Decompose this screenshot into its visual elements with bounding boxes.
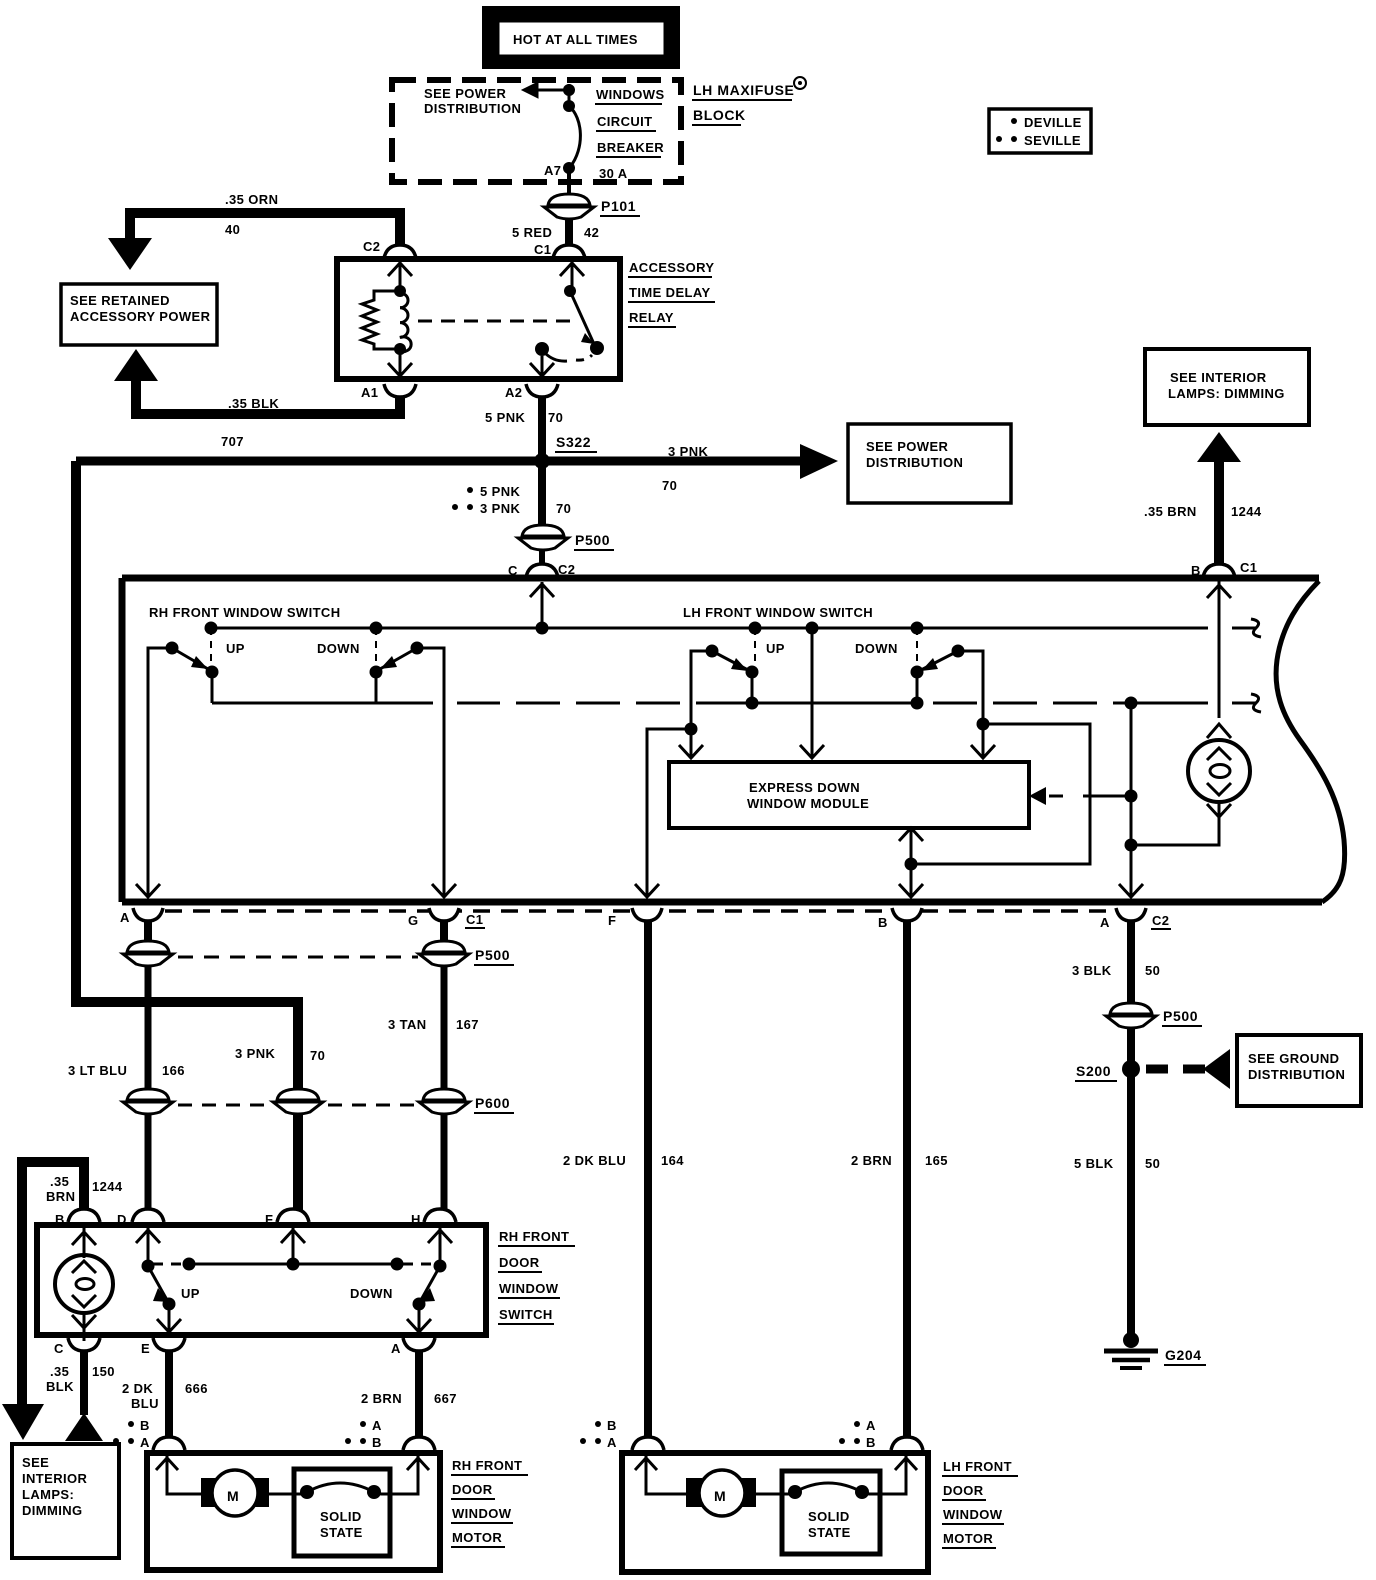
connector P500 on G line	[419, 941, 514, 966]
reference box SEE GROUND DISTRIBUTION	[1237, 1035, 1361, 1106]
svg-text:DOWN: DOWN	[855, 641, 898, 656]
svg-text:RH FRONT WINDOW SWITCH: RH FRONT WINDOW SWITCH	[149, 605, 341, 620]
wire 3 TAN 167	[388, 966, 479, 1092]
svg-text:G: G	[408, 913, 419, 928]
RH switch DOWN dashed guide	[375, 628, 377, 674]
svg-text:DEVILLE: DEVILLE	[1024, 115, 1082, 130]
svg-text:MOTOR: MOTOR	[943, 1531, 993, 1546]
motor M1: RH front door window motor box	[147, 1453, 440, 1570]
svg-text:1244: 1244	[1231, 504, 1262, 519]
svg-text:SEE GROUND: SEE GROUND	[1248, 1051, 1339, 1066]
label WINDOWS CIRCUIT BREAKER 30 A	[595, 87, 665, 181]
svg-text:40: 40	[225, 222, 240, 237]
arrow to see power distribution	[522, 82, 569, 98]
pin F cup	[265, 1209, 309, 1227]
wire H drop (TAN)	[441, 1114, 448, 1210]
node bus x211	[205, 622, 218, 635]
circuit breaker (windows, 30A)	[563, 100, 580, 174]
wire D line with up arrow	[136, 1228, 160, 1266]
svg-text:DOOR: DOOR	[943, 1483, 984, 1498]
arrow into interior lamps (big)	[2, 1404, 44, 1440]
svg-text:INTERIOR: INTERIOR	[22, 1471, 88, 1486]
wire linkage (door switch)	[153, 1263, 437, 1266]
svg-text:5 RED: 5 RED	[512, 225, 552, 240]
svg-text:2 DK BLU: 2 DK BLU	[563, 1153, 626, 1168]
svg-text:.35 BRN: .35 BRN	[1144, 504, 1197, 519]
connector P600 on TAN line	[419, 1089, 514, 1114]
wire centre bus to module	[800, 628, 824, 758]
wire LH motor right entry	[862, 1456, 917, 1494]
svg-text:BLK: BLK	[46, 1379, 74, 1394]
arrow down at pin A	[136, 884, 160, 897]
arrow to see ground distribution	[1203, 1049, 1230, 1089]
reference box SEE INTERIOR LAMPS: DIMMING (bottom left)	[12, 1444, 119, 1558]
svg-text:42: 42	[584, 225, 599, 240]
svg-text:ACCESSORY POWER: ACCESSORY POWER	[70, 309, 211, 324]
svg-text:70: 70	[548, 410, 563, 425]
reference box SEE INTERIOR LAMPS: DIMMING (top right)	[1145, 349, 1309, 425]
svg-text:SEE POWER: SEE POWER	[866, 439, 949, 454]
svg-text:A1: A1	[361, 385, 378, 400]
label LH FRONT DOOR WINDOW MOTOR	[942, 1459, 1018, 1548]
LH maxifuse block (dashed outline)	[392, 80, 681, 182]
pin cup RH motor right	[403, 1437, 435, 1450]
svg-text:2 BRN: 2 BRN	[361, 1391, 402, 1406]
wire 2 DK BLU 666	[113, 1351, 208, 1450]
wire dashed thick to ground distribution	[1146, 1065, 1205, 1074]
svg-text:A: A	[120, 910, 130, 925]
svg-text:50: 50	[1145, 1156, 1160, 1171]
pin B cup on panel top right	[1191, 560, 1259, 578]
switch RH door DOWN arm	[407, 1260, 447, 1333]
svg-text:A: A	[140, 1435, 150, 1450]
svg-text:B: B	[55, 1212, 65, 1227]
svg-text:B: B	[140, 1418, 150, 1433]
svg-text:A2: A2	[505, 385, 522, 400]
pin A cup below panel	[120, 908, 163, 925]
pin G cup below panel with C1	[408, 908, 485, 928]
svg-text:UP: UP	[181, 1286, 200, 1301]
svg-text:DOOR: DOOR	[499, 1255, 540, 1270]
wire top bus	[211, 627, 1256, 630]
svg-text:150: 150	[92, 1364, 115, 1379]
svg-text:.35: .35	[50, 1174, 69, 1189]
continuation hook top bus	[1251, 619, 1261, 637]
pin A cup below panel right with C2	[1100, 908, 1171, 930]
node linkage mid	[287, 1258, 300, 1271]
svg-text:3 PNK: 3 PNK	[668, 444, 709, 459]
switch S: RH front door window switch box	[37, 1225, 486, 1335]
svg-text:1244: 1244	[92, 1179, 123, 1194]
svg-text:2 DK: 2 DK	[122, 1381, 153, 1396]
svg-text:A: A	[607, 1435, 617, 1450]
svg-text:H: H	[411, 1212, 421, 1227]
svg-text:STATE: STATE	[320, 1525, 363, 1540]
wire A1 exit with down arrow	[388, 349, 412, 376]
svg-text:C: C	[54, 1341, 64, 1356]
svg-text:DIMMING: DIMMING	[22, 1503, 83, 1518]
svg-text:DISTRIBUTION: DISTRIBUTION	[866, 455, 963, 470]
svg-text:A: A	[1100, 915, 1110, 930]
svg-text:G204: G204	[1165, 1347, 1202, 1363]
wire 5 RED 42	[512, 219, 599, 245]
svg-text:A: A	[866, 1418, 876, 1433]
wire panel feed entry (C) with up arrow	[530, 582, 554, 628]
svg-text:3 PNK: 3 PNK	[235, 1046, 276, 1061]
svg-text:C2: C2	[1152, 913, 1169, 928]
pin markers LH motor right	[839, 1418, 876, 1450]
wire 3 LT BLU 166	[68, 966, 185, 1092]
svg-text:P500: P500	[1163, 1008, 1198, 1024]
wire dashed into module right side	[1029, 787, 1131, 805]
wire 5 BLK 50	[1074, 1069, 1160, 1340]
svg-text:LH MAXIFUSE: LH MAXIFUSE	[693, 82, 795, 98]
svg-text:5 BLK: 5 BLK	[1074, 1156, 1114, 1171]
reference box SEE RETAINED ACCESSORY POWER	[61, 284, 217, 345]
svg-text:S322: S322	[556, 434, 591, 450]
switch RH door UP arm	[142, 1260, 182, 1333]
svg-text:WINDOW: WINDOW	[943, 1507, 1003, 1522]
wire C2 entry with up arrow	[388, 262, 412, 290]
continuation hook linkage	[1251, 694, 1261, 712]
splice S200	[1075, 1060, 1140, 1081]
pin E cup	[141, 1338, 185, 1356]
svg-text:TIME DELAY: TIME DELAY	[629, 285, 711, 300]
wire 3 PNK 70 to power distribution arrow	[542, 444, 838, 493]
wire 2 BRN 667	[345, 1351, 457, 1450]
power feed box HOT AT ALL TIMES	[482, 6, 680, 69]
svg-text:F: F	[265, 1212, 273, 1227]
node bus x542	[536, 622, 549, 635]
svg-text:LH FRONT: LH FRONT	[943, 1459, 1012, 1474]
svg-text:C1: C1	[1240, 560, 1257, 575]
wire F line with up arrow to linkage	[281, 1228, 305, 1264]
svg-text:70: 70	[310, 1048, 325, 1063]
svg-text:ACCESSORY: ACCESSORY	[629, 260, 714, 275]
wire thick from left joining S322	[76, 457, 542, 466]
svg-text:A: A	[391, 1341, 401, 1356]
wire into panel pin C	[539, 550, 545, 564]
wire B C1 exit top	[1218, 578, 1221, 582]
reference box SEE POWER DISTRIBUTION	[848, 424, 1011, 503]
wire .35 ORN 40 (thick)	[108, 192, 400, 270]
svg-text:D: D	[117, 1212, 127, 1227]
svg-text:S200: S200	[1076, 1063, 1111, 1079]
svg-text:666: 666	[185, 1381, 208, 1396]
svg-text:707: 707	[221, 434, 244, 449]
svg-text:LAMPS: DIMMING: LAMPS: DIMMING	[1168, 386, 1285, 401]
svg-text:C2: C2	[363, 239, 380, 254]
label RH FRONT DOOR WINDOW SWITCH	[498, 1229, 575, 1324]
svg-text:SEE RETAINED: SEE RETAINED	[70, 293, 170, 308]
splice S322	[534, 434, 597, 469]
wire C1 entry with up arrow	[560, 262, 584, 290]
wire pin A (C2) vertical	[1119, 697, 1143, 898]
pin A cup	[391, 1338, 435, 1356]
svg-text:HOT AT ALL TIMES: HOT AT ALL TIMES	[513, 32, 638, 47]
svg-text:DOWN: DOWN	[317, 641, 360, 656]
node at breaker top	[563, 84, 575, 96]
window switch panel outline with torn right edge	[122, 578, 1345, 902]
LH switch UP arm	[706, 645, 759, 710]
RH switch UP arm	[166, 642, 219, 704]
svg-text:RH FRONT: RH FRONT	[452, 1458, 522, 1473]
pin B cup (door switch top)	[55, 1209, 100, 1227]
svg-text:B: B	[878, 915, 888, 930]
svg-text:E: E	[141, 1341, 150, 1356]
svg-text:SEE: SEE	[22, 1455, 49, 1470]
svg-text:LAMPS:: LAMPS:	[22, 1487, 74, 1502]
pin B cup below panel	[878, 908, 922, 930]
svg-text:164: 164	[661, 1153, 684, 1168]
svg-text:BLU: BLU	[131, 1396, 159, 1411]
svg-text:F: F	[608, 913, 616, 928]
pin C1 into relay (cup)	[534, 242, 585, 258]
svg-text:WINDOW: WINDOW	[499, 1281, 559, 1296]
svg-text:UP: UP	[226, 641, 245, 656]
svg-text:UP: UP	[766, 641, 785, 656]
svg-text:667: 667	[434, 1391, 457, 1406]
wire LH up pivot to pin F and module	[635, 651, 712, 897]
svg-text:50: 50	[1145, 963, 1160, 978]
svg-text:P101: P101	[601, 198, 636, 214]
svg-text:MOTOR: MOTOR	[452, 1530, 502, 1545]
svg-text:.35 ORN: .35 ORN	[225, 192, 278, 207]
pin A2 cup below relay	[505, 384, 558, 400]
wire A7 to P101	[567, 168, 571, 196]
node linkage right	[391, 1258, 404, 1271]
wire G line to P500	[440, 921, 448, 945]
svg-text:SOLID: SOLID	[320, 1509, 362, 1524]
wire to S200	[1127, 1028, 1135, 1100]
svg-text:B: B	[372, 1435, 382, 1450]
lamp L2: door switch illumination	[55, 1228, 113, 1341]
svg-text:C1: C1	[466, 912, 483, 927]
wire A line to P500	[144, 921, 152, 945]
lamp L1: panel illumination	[1131, 582, 1250, 845]
node bus x376	[370, 622, 383, 635]
wire motor to solid state LH	[754, 1493, 795, 1496]
motor M2: LH front door window motor box	[622, 1453, 928, 1572]
label RH FRONT DOOR WINDOW MOTOR	[451, 1458, 528, 1547]
svg-text:3 BLK: 3 BLK	[1072, 963, 1112, 978]
svg-text:5 PNK: 5 PNK	[480, 484, 521, 499]
RH switch UP dashed guide	[210, 628, 212, 674]
svg-text:SWITCH: SWITCH	[499, 1307, 553, 1322]
wire motor to solid state RH	[267, 1493, 307, 1496]
svg-text:BRN: BRN	[46, 1189, 75, 1204]
pin A1 cup below relay	[361, 384, 416, 400]
LH switch UP dashed guide	[754, 628, 756, 674]
wire 2 BRN 165 (B to LH motor)	[851, 921, 948, 1437]
svg-text:C1: C1	[534, 242, 551, 257]
svg-text:DOWN: DOWN	[350, 1286, 393, 1301]
motor symbol RH (M)	[201, 1470, 269, 1516]
svg-text:P500: P500	[475, 947, 510, 963]
connector P600 on PNK line	[273, 1089, 323, 1114]
svg-text:.35 BLK: .35 BLK	[228, 396, 279, 411]
wire D drop (LT BLU)	[145, 1114, 152, 1210]
node linkage left	[183, 1258, 196, 1271]
connector P500 (ground lead)	[1106, 1003, 1202, 1028]
module U2: express down window module	[669, 762, 1029, 828]
svg-text:B: B	[866, 1435, 876, 1450]
wire dashed between P500s	[178, 956, 418, 959]
svg-text:3 TAN: 3 TAN	[388, 1017, 427, 1032]
pin D cup	[117, 1209, 164, 1227]
node bus x812	[806, 622, 819, 635]
svg-text:BREAKER: BREAKER	[597, 140, 664, 155]
solid state module RH	[294, 1469, 390, 1556]
svg-text:EXPRESS DOWN: EXPRESS DOWN	[749, 780, 860, 795]
pin cup RH motor left	[153, 1437, 185, 1450]
wire .35 BRN 1244 up to interior lamps	[1144, 432, 1262, 563]
motor symbol LH (M)	[686, 1470, 756, 1516]
svg-text:RH FRONT: RH FRONT	[499, 1229, 569, 1244]
wire 5 PNK / 3 PNK 70 below S322	[452, 461, 571, 526]
wire A2 exit with down arrow	[530, 356, 554, 376]
pin C2 cup above relay	[363, 239, 416, 258]
pin C cup (door switch bottom)	[54, 1338, 100, 1356]
svg-text:P600: P600	[475, 1095, 510, 1111]
svg-text:M: M	[227, 1488, 239, 1504]
wire connector-face dashed line below panel	[165, 909, 1108, 913]
wire RH motor right entry	[374, 1456, 429, 1494]
wire RH pivot to pin A	[148, 648, 172, 897]
label LH MAXIFUSE BLOCK	[692, 77, 806, 125]
svg-text:3 LT BLU: 3 LT BLU	[68, 1063, 127, 1078]
connector P500 on A line	[123, 941, 173, 966]
svg-text:166: 166	[162, 1063, 185, 1078]
svg-text:165: 165	[925, 1153, 948, 1168]
wire breaker top stub	[568, 84, 571, 105]
svg-text:30 A: 30 A	[599, 166, 628, 181]
LH switch DOWN arm	[911, 645, 965, 710]
connector P500 (main feed)	[518, 525, 614, 550]
svg-text:5 PNK: 5 PNK	[485, 410, 526, 425]
ground G204	[1104, 1332, 1206, 1368]
svg-text:A7: A7	[544, 163, 561, 178]
svg-text:SOLID: SOLID	[808, 1509, 850, 1524]
svg-text:RELAY: RELAY	[629, 310, 674, 325]
wire H line with up arrow	[428, 1228, 452, 1266]
RH switch DOWN arm	[370, 642, 424, 704]
svg-text:LH FRONT WINDOW SWITCH: LH FRONT WINDOW SWITCH	[683, 605, 873, 620]
svg-text:B: B	[607, 1418, 617, 1433]
relay switch contact	[535, 285, 604, 361]
svg-text:WINDOW: WINDOW	[452, 1506, 512, 1521]
wire LH down pivot to module and loop	[899, 651, 1090, 897]
wire LH motor left entry	[635, 1456, 688, 1494]
wire .35 BLK 150 with off arrow	[46, 1351, 115, 1441]
wire RH down pivot to pin G	[417, 648, 444, 897]
pin F cup below panel	[608, 908, 662, 928]
pin C cup on panel top	[508, 562, 577, 578]
arrow down at pin G	[432, 884, 456, 897]
relay internal dashed link	[418, 320, 575, 323]
node bus x917	[911, 622, 924, 635]
svg-text:A: A	[372, 1418, 382, 1433]
connector P101	[544, 194, 640, 219]
svg-text:SEVILLE: SEVILLE	[1024, 133, 1081, 148]
LH switch DOWN dashed guide	[916, 628, 918, 674]
wire linkage line	[212, 702, 1256, 705]
svg-text:SEE INTERIOR: SEE INTERIOR	[1170, 370, 1267, 385]
svg-text:DISTRIBUTION: DISTRIBUTION	[1248, 1067, 1345, 1082]
svg-text:3 PNK: 3 PNK	[480, 501, 521, 516]
svg-text:M: M	[714, 1488, 726, 1504]
wire 5 PNK 70 from A2	[485, 397, 563, 462]
pin markers LH motor left	[580, 1418, 617, 1450]
svg-text:.35: .35	[50, 1364, 69, 1379]
connector P600 on LT BLU line	[123, 1089, 173, 1114]
svg-text:BLOCK: BLOCK	[693, 107, 746, 123]
pin cup LH motor left	[632, 1437, 664, 1450]
svg-text:2 BRN: 2 BRN	[851, 1153, 892, 1168]
wire F drop (PNK)	[293, 1114, 303, 1210]
pin H cup	[411, 1209, 456, 1227]
relay coil resistor branch	[362, 291, 400, 349]
wire 3 BLK 50 (A C2 down)	[1072, 921, 1160, 1006]
svg-text:70: 70	[556, 501, 571, 516]
wire RH motor left entry	[156, 1456, 203, 1494]
legend box DEVILLE/SEVILLE	[989, 109, 1091, 153]
svg-text:DISTRIBUTION: DISTRIBUTION	[424, 101, 521, 116]
pin cup LH motor right	[891, 1437, 923, 1450]
relay U: accessory time delay relay box	[337, 259, 715, 379]
wire dashed between P600s	[178, 1104, 418, 1107]
wire .35 BRN 1244 (to door switch B)	[22, 1162, 123, 1404]
svg-text:CIRCUIT: CIRCUIT	[597, 114, 653, 129]
svg-text:DOOR: DOOR	[452, 1482, 493, 1497]
svg-text:SEE POWER: SEE POWER	[424, 86, 507, 101]
svg-text:WINDOW MODULE: WINDOW MODULE	[747, 796, 869, 811]
wire 2 DK BLU 164 (F to LH motor)	[563, 921, 684, 1437]
svg-text:STATE: STATE	[808, 1525, 851, 1540]
label SEE POWER DISTRIBUTION (in maxifuse block)	[424, 86, 521, 116]
svg-text:167: 167	[456, 1017, 479, 1032]
node bus x755	[749, 622, 762, 635]
wire 3 PNK 70 thick from left feed	[76, 461, 325, 1092]
svg-text:P500: P500	[575, 532, 610, 548]
solid state module LH	[782, 1471, 880, 1554]
svg-text:70: 70	[662, 478, 677, 493]
relay coil	[394, 285, 411, 355]
svg-text:WINDOWS: WINDOWS	[596, 87, 665, 102]
wire .35 BLK 707 (thick)	[114, 349, 400, 449]
svg-text:B: B	[1191, 563, 1201, 578]
